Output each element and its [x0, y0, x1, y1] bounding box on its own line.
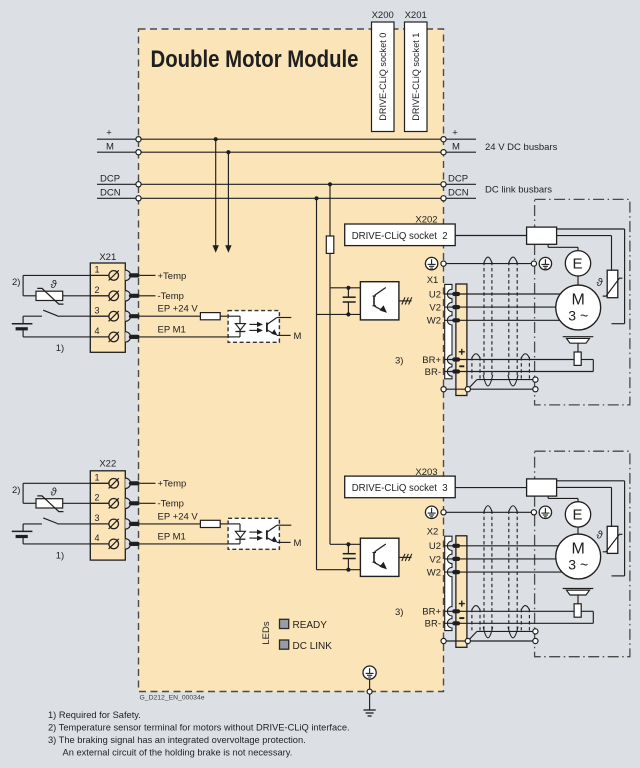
- svg-text:1: 1: [94, 265, 99, 275]
- svg-text:ϑ: ϑ: [50, 487, 57, 499]
- svg-text:G_D212_EN_00034e: G_D212_EN_00034e: [140, 695, 205, 702]
- temperature sensor wiring (+Temp loop) X22: [23, 483, 109, 503]
- thermistor sensor (motor temp) X22: [36, 487, 64, 512]
- svg-text:M: M: [294, 538, 302, 549]
- label 2) X22: [12, 485, 20, 496]
- label X21: [99, 252, 116, 263]
- svg-text:-Temp: -Temp: [158, 499, 184, 510]
- svg-text:Double Motor Module: Double Motor Module: [151, 46, 359, 73]
- label X22: [99, 459, 116, 470]
- wire DRIVE-CLiQ socket 2 to encoder interface: [455, 235, 526, 237]
- svg-text:BR+: BR+: [422, 355, 441, 366]
- power cable shield pair 2 axis 1: [508, 257, 518, 386]
- svg-text:W2: W2: [427, 316, 441, 327]
- wire BR+ axis 1: [422, 355, 574, 366]
- wire DC- to inverter axis 2: [317, 568, 361, 572]
- svg-text:3) The braking signal has an i: 3) The braking signal has an integrated …: [48, 735, 306, 745]
- label 3) axis 1: [395, 355, 403, 366]
- motor connector strip axis 1: [445, 284, 452, 378]
- svg-text:V2: V2: [429, 303, 441, 314]
- EP enable switch X21: [23, 310, 109, 316]
- wire DC+ to inverter axis 1: [330, 286, 360, 290]
- EP enable switch X22: [23, 518, 109, 524]
- wire encoder box to temp sensor (inner) axis 2: [557, 487, 612, 526]
- annotation 24 V DC busbars: [485, 142, 558, 153]
- footnote 3: [48, 735, 306, 745]
- svg-text:BR+: BR+: [422, 607, 441, 618]
- power cable shield pair 1 axis 2: [483, 506, 493, 638]
- svg-text:3): 3): [395, 355, 403, 366]
- footnote 1: [48, 710, 141, 720]
- wire DC- to inverter axis 1: [317, 312, 361, 316]
- motor temperature sensor axis 1: [596, 270, 622, 298]
- module protective earth: [363, 666, 376, 694]
- label X terminal axis 1: [427, 275, 439, 286]
- svg-text:+: +: [452, 127, 458, 138]
- svg-text:1): 1): [56, 343, 64, 354]
- svg-text:4: 4: [94, 533, 99, 543]
- wire encoder box to temp sensor (inner) axis 1: [557, 236, 612, 271]
- inverter 3-phase output axis 1: [399, 297, 412, 304]
- wire thermistor to pin 2 X21: [63, 295, 109, 297]
- power cable shield pair 1 axis 1: [483, 257, 493, 386]
- motor terminal pins axis 2: [452, 544, 460, 626]
- svg-text:EP +24 V: EP +24 V: [158, 511, 199, 522]
- wire optocoupler emitter to M X21: [277, 331, 302, 342]
- power cable shield pair 2 axis 2: [508, 506, 518, 638]
- shield bond wire upper axis 2: [477, 629, 538, 634]
- brake disc axis 2: [563, 589, 594, 604]
- wire U2 axis 2: [429, 541, 559, 552]
- motor M 3~ axis 2: [556, 534, 601, 579]
- svg-text:2: 2: [94, 285, 99, 295]
- terminal screws X21 pins 1-4: [91, 265, 119, 342]
- svg-text:2) Temperature sensor terminal: 2) Temperature sensor terminal for motor…: [48, 723, 350, 733]
- terminal block X22: [90, 471, 130, 560]
- label X200: [372, 10, 394, 21]
- encoder E axis 1: [565, 251, 590, 276]
- shield bond wire lower axis 2: [441, 638, 538, 643]
- cable shield bonding wire axis 1: [446, 261, 537, 266]
- svg-text:4: 4: [94, 326, 99, 336]
- svg-text:DC LINK: DC LINK: [293, 641, 333, 652]
- wire brake return axis 1: [581, 360, 593, 372]
- svg-text:DCP: DCP: [448, 174, 468, 185]
- wire V2 axis 2: [429, 554, 556, 565]
- inverter 3-phase output axis 2: [399, 554, 412, 561]
- svg-text:EP M1: EP M1: [158, 324, 186, 335]
- wire -Temp X21: [140, 291, 184, 302]
- svg-text:EP M1: EP M1: [158, 531, 186, 542]
- label LEDs: [261, 621, 272, 644]
- wire -Temp X22: [140, 499, 184, 510]
- motor unit dash-dot enclosure axis 1: [535, 199, 630, 405]
- svg-text:X201: X201: [405, 10, 427, 21]
- svg-text:An external circuit of the hol: An external circuit of the holding brake…: [63, 748, 293, 758]
- svg-text:X22: X22: [99, 459, 116, 470]
- svg-text:-Temp: -Temp: [158, 291, 184, 302]
- wire thermistor to pin 2 X22: [63, 502, 109, 504]
- svg-text:EP +24 V: EP +24 V: [158, 304, 199, 315]
- wire U2 axis 1: [429, 289, 560, 300]
- wire: 24V + feed arrow: [213, 137, 219, 253]
- label 2) X21: [12, 277, 20, 288]
- wire BR+ axis 2: [422, 607, 574, 618]
- footnote 2: [48, 723, 350, 733]
- svg-text:ϑ: ϑ: [50, 279, 57, 291]
- holding brake coil axis 2: [574, 604, 581, 617]
- ground symbol below module: [364, 694, 376, 716]
- busbar DCP: [97, 174, 476, 187]
- svg-text:M: M: [294, 331, 302, 342]
- shield bond diagonal axis 1: [468, 380, 477, 390]
- title: Double Motor Module: [151, 46, 359, 73]
- wire: DCN drop: [314, 196, 318, 570]
- footnote 3 continuation: [63, 748, 293, 758]
- brake cable shield pair 1 axis 2: [472, 606, 480, 631]
- svg-text:X2: X2: [427, 527, 439, 538]
- svg-text:3 ~: 3 ~: [568, 307, 588, 323]
- motor temperature sensor axis 2: [596, 526, 622, 553]
- svg-text:1) Required for Safety.: 1) Required for Safety.: [48, 710, 141, 720]
- brake cable shield pair 1 axis 1: [472, 354, 480, 379]
- wire +Temp X21: [140, 271, 186, 282]
- svg-text:E: E: [572, 256, 582, 273]
- svg-text:M: M: [572, 541, 585, 558]
- terminal block X21: [90, 263, 130, 352]
- wire encoder box to temp sensor (outer) axis 1: [557, 229, 625, 324]
- shield earthing at motor axis 2: [539, 506, 551, 518]
- svg-text:3 ~: 3 ~: [568, 556, 588, 572]
- busbar + (24V): [97, 127, 476, 141]
- module outline: Double Motor Module (dashed beige box): [139, 29, 444, 692]
- terminal pins X21 (black contacts): [129, 273, 140, 339]
- svg-text:DRIVE-CLiQ socket 0: DRIVE-CLiQ socket 0: [378, 33, 388, 121]
- svg-text:2): 2): [12, 277, 20, 288]
- wire encoder box to temp sensor (outer) axis 2: [557, 481, 625, 576]
- shield bond wire upper axis 1: [477, 377, 538, 382]
- encoder connector box axis 1: [527, 227, 557, 244]
- svg-text:M: M: [572, 292, 585, 309]
- svg-text:3: 3: [94, 513, 99, 523]
- label 3) axis 2: [395, 607, 403, 618]
- motor terminal strip axis 2: [456, 536, 467, 648]
- thermistor sensor (motor temp) X21: [36, 279, 64, 304]
- connector X201: DRIVE-CLiQ socket 1: [405, 22, 428, 132]
- inverter power unit axis 2: [360, 538, 399, 576]
- shield earthing inside module axis 1: [425, 257, 446, 269]
- svg-text:DRIVE-CLiQ socket 2: DRIVE-CLiQ socket 2: [352, 231, 448, 242]
- wire BR- axis 2: [425, 619, 594, 630]
- wire +Temp X22: [140, 479, 186, 490]
- motor unit dash-dot enclosure axis 2: [535, 451, 630, 657]
- motor connector strip axis 2: [445, 536, 452, 630]
- wire encoder to motor axis 2: [577, 527, 579, 534]
- LED DC LINK: [280, 640, 333, 652]
- motor terminal strip axis 1: [456, 284, 467, 396]
- brake cable shield pair 2 axis 2: [521, 606, 529, 631]
- wire encoder box to encoder E axis 2: [548, 496, 578, 502]
- svg-text:1: 1: [94, 473, 99, 483]
- svg-text:3): 3): [395, 607, 403, 618]
- wire: DCP drop with fuse F1: [326, 182, 334, 544]
- wire EP M1 X22: [140, 531, 240, 544]
- shield bond wire lower axis 1: [441, 387, 538, 392]
- svg-text:M: M: [106, 142, 114, 153]
- wire optocoupler emitter to M X22: [277, 538, 302, 549]
- svg-text:DCN: DCN: [100, 188, 121, 199]
- svg-text:U2: U2: [429, 289, 441, 300]
- svg-text:1): 1): [56, 551, 64, 562]
- svg-text:X1: X1: [427, 275, 439, 286]
- svg-text:DC link busbars: DC link busbars: [485, 184, 552, 195]
- svg-text:24 V DC busbars: 24 V DC busbars: [485, 142, 558, 153]
- wire DRIVE-CLiQ socket 3 to encoder interface: [455, 487, 526, 489]
- svg-text:W2: W2: [427, 568, 441, 579]
- label X202: [415, 215, 437, 226]
- wire V2 axis 1: [429, 303, 555, 314]
- motor M 3~ axis 1: [556, 285, 601, 330]
- busbar M (24V return): [97, 142, 476, 155]
- label X201: [405, 10, 427, 21]
- svg-text:+Temp: +Temp: [158, 479, 187, 490]
- shield earthing at motor axis 1: [539, 257, 551, 269]
- optocoupler isolator X21: [228, 311, 279, 343]
- label 1) X22: [56, 551, 64, 562]
- wire optocoupler collector stub X22: [277, 524, 291, 526]
- svg-text:DCP: DCP: [100, 174, 120, 185]
- svg-text:DCN: DCN: [448, 188, 469, 199]
- inverter power unit axis 1: [360, 282, 399, 320]
- cable shield bonding wire axis 2: [446, 510, 537, 515]
- shield bond diagonal axis 2: [468, 631, 477, 641]
- DC link capacitor axis 1: [343, 288, 356, 315]
- connector X203: DRIVE-CLiQ socket 3 box: [345, 476, 456, 498]
- encoder E axis 2: [565, 502, 590, 527]
- busbar DCN: [97, 188, 476, 201]
- wire W2 axis 1: [427, 316, 560, 327]
- wire: M feed arrow: [225, 150, 231, 253]
- wire optocoupler collector stub X21: [277, 317, 291, 319]
- motor terminal pins axis 1: [452, 292, 460, 374]
- brake disc axis 1: [563, 337, 594, 352]
- svg-text:DRIVE-CLiQ socket 1: DRIVE-CLiQ socket 1: [411, 33, 421, 121]
- LED READY: [280, 619, 328, 631]
- svg-text:BR-: BR-: [425, 619, 441, 630]
- brake cable shield pair 2 axis 1: [521, 354, 529, 379]
- wire DC+ to inverter axis 2: [330, 542, 360, 546]
- svg-text:2): 2): [12, 485, 20, 496]
- connector X202: DRIVE-CLiQ socket 2 box: [345, 224, 456, 246]
- svg-text:3: 3: [94, 305, 99, 315]
- svg-text:DRIVE-CLiQ socket 3: DRIVE-CLiQ socket 3: [352, 483, 448, 494]
- wire EP M1 X21: [140, 324, 240, 337]
- terminal pins X22 (black contacts): [129, 481, 140, 546]
- label 1) X21: [56, 343, 64, 354]
- 24V source symbol X21: [12, 316, 109, 337]
- svg-text:+Temp: +Temp: [158, 271, 187, 282]
- svg-text:X21: X21: [99, 252, 116, 263]
- wire W2 axis 2: [427, 568, 562, 579]
- svg-text:X200: X200: [372, 10, 394, 21]
- optocoupler isolator X22: [228, 518, 279, 549]
- svg-text:BR-: BR-: [425, 367, 441, 378]
- label X203: [415, 467, 437, 478]
- svg-text:+: +: [106, 127, 112, 138]
- wire EP +24 V with resistor X21: [140, 304, 228, 320]
- encoder connector box axis 2: [527, 479, 557, 496]
- svg-text:2: 2: [94, 493, 99, 503]
- svg-text:M: M: [452, 142, 460, 153]
- DC link capacitor axis 2: [343, 544, 356, 569]
- wire brake return axis 2: [581, 611, 593, 623]
- shield earthing inside module axis 2: [425, 506, 446, 518]
- drawing number G_D212_EN_00034e: [140, 695, 205, 702]
- wire encoder to motor axis 1: [577, 276, 579, 285]
- wire BR- axis 1: [425, 367, 594, 378]
- terminal screws X22 pins 1-4: [91, 473, 119, 550]
- wire EP +24 V with resistor X22: [140, 511, 228, 527]
- connector X200: DRIVE-CLiQ socket 0: [372, 22, 395, 132]
- holding brake coil axis 1: [574, 352, 581, 365]
- svg-text:ϑ: ϑ: [596, 530, 603, 542]
- annotation DC link busbars: [485, 184, 552, 195]
- svg-text:READY: READY: [293, 620, 328, 631]
- svg-text:ϑ: ϑ: [596, 277, 603, 289]
- wire encoder box to encoder E axis 1: [548, 244, 578, 250]
- svg-text:E: E: [572, 507, 582, 524]
- 24V source symbol X22: [12, 524, 109, 544]
- label X terminal axis 2: [427, 527, 439, 538]
- svg-text:V2: V2: [429, 554, 441, 565]
- svg-text:LEDs: LEDs: [261, 621, 272, 644]
- temperature sensor wiring (+Temp loop) X21: [23, 275, 109, 295]
- svg-text:U2: U2: [429, 541, 441, 552]
